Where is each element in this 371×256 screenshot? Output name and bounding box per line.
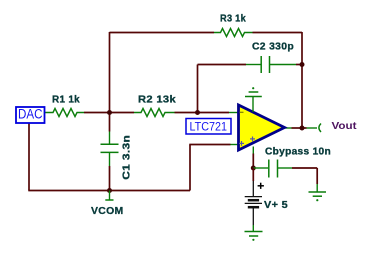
label Cbypass 10n [265, 147, 331, 158]
svg-text:VCOM: VCOM [91, 206, 124, 217]
label R3 1k [220, 14, 246, 25]
ground right [309, 192, 327, 201]
resistor R1 [45, 109, 84, 117]
junction VCOM node [107, 188, 112, 193]
label R1 1k [52, 95, 80, 106]
resistor R2 [134, 109, 175, 117]
DAC port box [16, 107, 45, 124]
label R2 13k [138, 95, 176, 106]
capacitor C1 [101, 132, 119, 167]
wire: node A down to C1 top lead [109, 113, 111, 132]
svg-text:Cbypass 10n: Cbypass 10n [265, 147, 331, 158]
junction node A [107, 110, 112, 115]
wire: main rail R1 to node A to R2 [84, 112, 134, 114]
junction output node [300, 126, 305, 131]
label VCOM [91, 206, 124, 217]
svg-text:LTC721: LTC721 [190, 120, 228, 134]
label LTC721 box [186, 119, 231, 135]
wire: bottom VCOM rail [28, 190, 190, 192]
wire: right vertical rail output to top [301, 32, 303, 128]
wire: DAC bottom pin down [28, 123, 30, 191]
op-amp plus input mark [239, 141, 244, 146]
svg-text:C1 3.3n: C1 3.3n [121, 135, 132, 180]
label C1 3.3n (rotated) [121, 135, 132, 180]
label C2 330p [252, 42, 294, 53]
svg-text:C2 330p: C2 330p [252, 42, 294, 53]
resistor R3 [214, 29, 253, 37]
ground (inverted) on op-amp top pin [245, 87, 262, 96]
wire: C1 bottom lead down to VCOM rail [109, 166, 111, 191]
port Vout bracket [319, 124, 321, 133]
svg-text:R1 1k: R1 1k [52, 95, 80, 106]
wire: top feedback rail right segment [253, 32, 303, 34]
op-amp minus input mark [240, 111, 244, 113]
label V+ 5 [264, 200, 288, 211]
junction bypass node [251, 166, 256, 171]
power port VCOM [105, 191, 113, 201]
op-amp bottom power pin wire [252, 147, 254, 169]
svg-text:Vout: Vout [332, 120, 358, 132]
capacitor Cbypass [253, 160, 292, 178]
wire: Cbypass right to ground [292, 168, 317, 192]
label Vout [332, 120, 358, 132]
op-amp U1 triangle [239, 105, 285, 150]
svg-text:R3 1k: R3 1k [220, 14, 246, 25]
battery V+ 5 [245, 183, 264, 208]
wire: bypass node down to battery [252, 168, 254, 197]
wire: node B vertical up to C2 branch [197, 65, 199, 113]
svg-text:DAC: DAC [18, 107, 43, 122]
wire: output node to Vout port [302, 127, 317, 129]
wire: C2 right lead to right rail [296, 64, 302, 66]
svg-text:R2 13k: R2 13k [138, 95, 176, 106]
op-amp top power pin wire [252, 97, 254, 113]
wire: non-inverting input horizontal into op-amp [189, 144, 237, 146]
svg-text:V+ 5: V+ 5 [264, 200, 288, 211]
wire: feedback vertical from node A up to top rail [109, 32, 111, 113]
junction C2-output [300, 62, 305, 67]
wire: R2 to node B to op-amp inverting input [175, 112, 238, 114]
wire: op-amp output to output node [285, 127, 302, 129]
wire: battery to bottom ground [252, 208, 254, 232]
op-amp V+ power mark [250, 137, 255, 142]
capacitor C2 [246, 56, 296, 73]
wire: non-inverting input vertical riser [189, 145, 191, 191]
wire: top feedback rail left segment [110, 32, 215, 34]
wire: C2 branch horizontal to C2 left lead [198, 64, 247, 66]
junction node B [195, 110, 200, 115]
ground bottom [245, 232, 263, 241]
